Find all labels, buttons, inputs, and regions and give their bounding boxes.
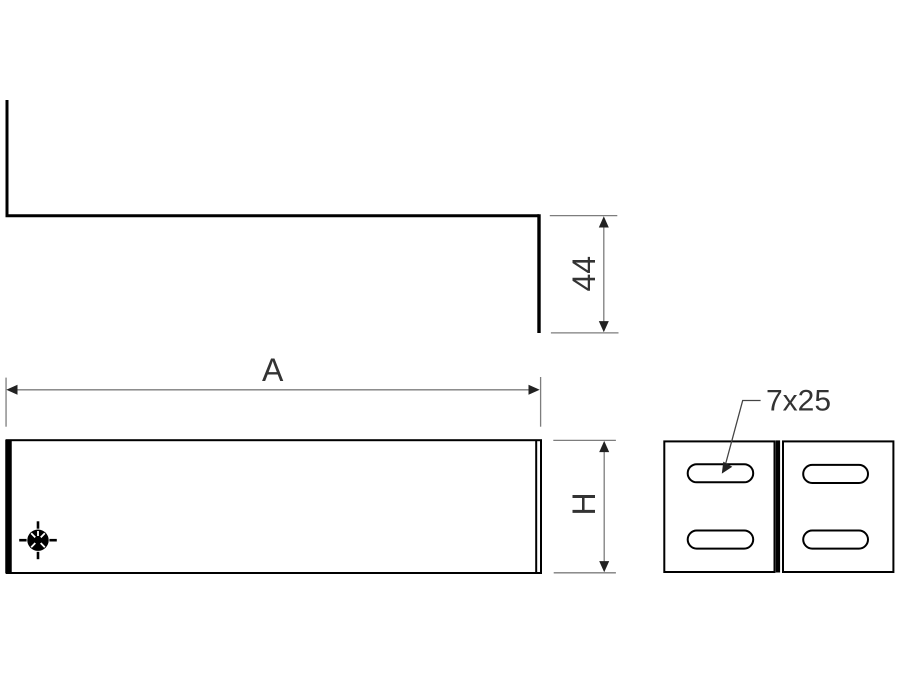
front view cover plate outline	[7, 440, 541, 573]
dimension H value label	[566, 492, 602, 515]
side view Z-profile horizontal web	[6, 214, 540, 217]
dimension 44 dimension line	[603, 219, 605, 330]
dimension 44 value label	[566, 256, 602, 292]
side view Z-profile right vertical flange	[537, 214, 540, 333]
front view left folded edge (thick band)	[5, 440, 12, 574]
slot 7x25 right plate lower	[803, 531, 868, 549]
dimension H bottom extension line	[554, 572, 616, 574]
dimension 44 bottom extension line	[551, 332, 619, 334]
svg-text:H: H	[566, 492, 602, 515]
dimension H upper arrowhead	[599, 441, 609, 452]
end view right plate outline	[783, 441, 893, 572]
slot 7x25 left plate lower	[688, 531, 754, 549]
dimension A value label	[262, 352, 284, 388]
dimension 44 top extension line	[550, 215, 618, 217]
end view centre joint (thick line)	[776, 440, 780, 572]
svg-text:A: A	[262, 352, 284, 388]
end view left plate outline	[664, 441, 774, 572]
slot 7x25 left plate upper	[688, 464, 754, 482]
dimension A left extension line	[5, 378, 7, 427]
dimension H dimension line	[603, 443, 605, 570]
slot 7x25 right plate upper	[803, 465, 868, 483]
dimension A left arrowhead	[6, 385, 17, 395]
dimension H top extension line	[553, 439, 616, 441]
dimension 44 lower arrowhead	[599, 321, 609, 332]
front view right inner fold line	[535, 441, 537, 572]
svg-text:44: 44	[566, 256, 602, 292]
leader line for slot label	[722, 401, 761, 474]
fastening point symbol (punched hole marker)	[19, 521, 57, 559]
dimension H lower arrowhead	[599, 561, 609, 572]
svg-text:7x25: 7x25	[766, 385, 831, 418]
slot size label 7x25	[766, 385, 831, 418]
dimension A right arrowhead	[529, 385, 540, 395]
dimension 44 upper arrowhead	[599, 216, 609, 227]
dimension A right extension line	[540, 377, 542, 427]
dimension A dimension line	[9, 389, 537, 391]
side view Z-profile left vertical edge	[6, 100, 9, 216]
